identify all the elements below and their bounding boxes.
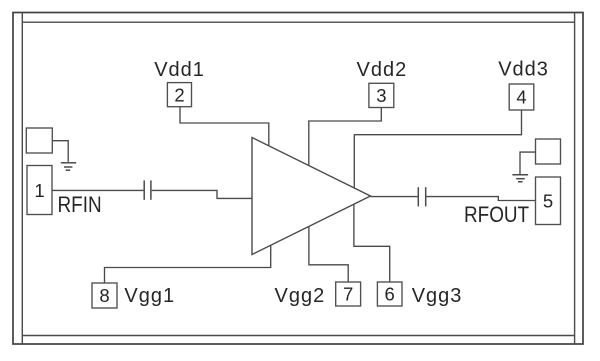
- svg-text:6: 6: [385, 284, 395, 305]
- svg-text:RFIN: RFIN: [58, 193, 102, 218]
- svg-text:4: 4: [516, 87, 526, 108]
- svg-text:Vdd3: Vdd3: [498, 59, 549, 81]
- svg-text:3: 3: [376, 85, 386, 106]
- svg-text:5: 5: [543, 190, 553, 211]
- svg-text:Vdd2: Vdd2: [357, 59, 408, 81]
- svg-text:Vgg3: Vgg3: [412, 285, 463, 307]
- svg-text:2: 2: [174, 84, 184, 105]
- svg-text:1: 1: [34, 180, 44, 201]
- svg-text:Vgg1: Vgg1: [124, 285, 175, 307]
- svg-text:Vdd1: Vdd1: [154, 59, 205, 81]
- svg-text:7: 7: [343, 284, 353, 305]
- svg-text:RFOUT: RFOUT: [464, 203, 530, 228]
- svg-text:8: 8: [99, 285, 109, 306]
- svg-text:Vgg2: Vgg2: [275, 285, 326, 307]
